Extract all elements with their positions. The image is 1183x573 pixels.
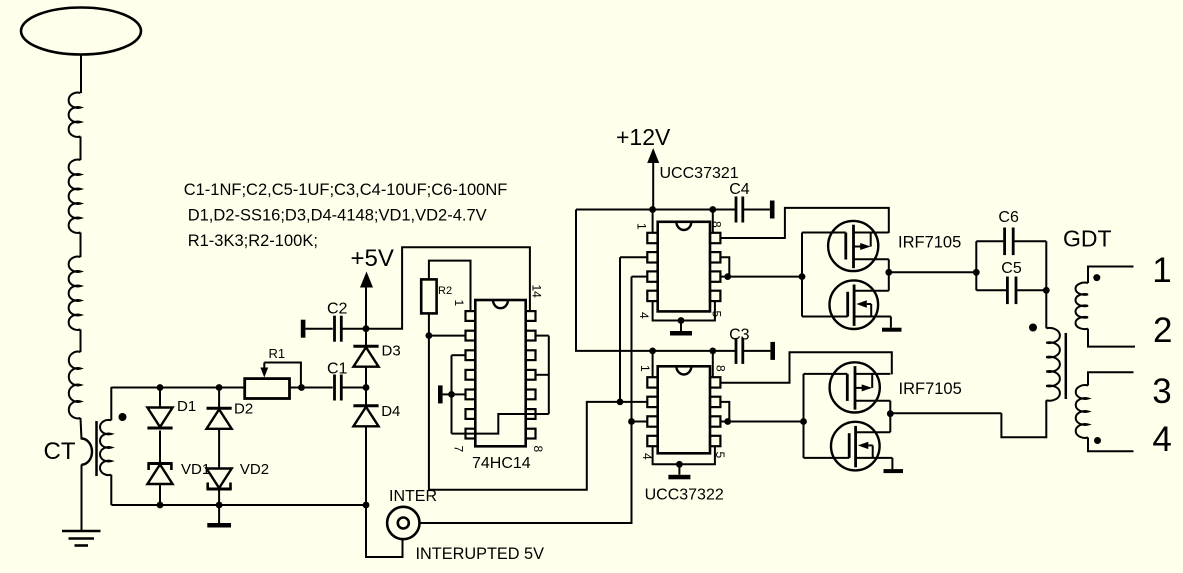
74HC14 pin5 stub bbox=[452, 393, 466, 395]
wire CT primary to ground bbox=[81, 465, 83, 532]
UCC37322 pin4 number bbox=[640, 453, 654, 460]
svg-text:C3: C3 bbox=[729, 327, 750, 344]
+12V top rail bbox=[576, 209, 736, 211]
node dot lower rail / UCC37322 pin1 bbox=[649, 348, 656, 355]
74HC14 label bbox=[472, 455, 531, 472]
svg-text:UCC37322: UCC37322 bbox=[645, 487, 724, 504]
74HC14 pin8 number bbox=[531, 446, 545, 453]
+5V arrow bbox=[360, 272, 373, 288]
svg-text:4: 4 bbox=[637, 312, 651, 319]
CT secondary winding bbox=[100, 420, 111, 475]
svg-text:74HC14: 74HC14 bbox=[472, 455, 531, 472]
svg-text:8: 8 bbox=[531, 446, 545, 453]
C4 label bbox=[729, 181, 750, 198]
node dot bottom rail / interrupter line bbox=[363, 502, 370, 509]
74HC14 pin7-pin9 internal link bbox=[452, 414, 549, 434]
UCC37322 pin1 riser bbox=[652, 351, 654, 378]
D1 label bbox=[177, 398, 196, 415]
74HC14 pin13 stub bbox=[536, 335, 549, 337]
IC UCC37322 (DIP-8) bbox=[647, 366, 720, 453]
diode D1 bbox=[147, 408, 172, 429]
wire R2 top to 74HC14 pin1 bbox=[429, 261, 471, 311]
wire D2-VD2 bbox=[218, 429, 220, 469]
node dot C1 / D3-D4 bbox=[363, 384, 370, 391]
svg-text:C4: C4 bbox=[729, 181, 750, 198]
wire 74HC14 output to UCC pin2 line bbox=[429, 336, 620, 490]
svg-text:C5: C5 bbox=[1001, 260, 1022, 277]
R1 wiper wire bbox=[264, 363, 301, 388]
node dot +12V / pin1 riser bbox=[649, 206, 656, 213]
svg-text:IRF7105: IRF7105 bbox=[899, 380, 962, 398]
node dot R2/pin2/feedback bbox=[426, 332, 433, 339]
capacitor C6 bbox=[1005, 228, 1014, 256]
VD2 label bbox=[240, 461, 269, 478]
D2 label bbox=[234, 401, 253, 418]
diode D4 bbox=[353, 406, 378, 427]
wire to 74HC14 pin2 bbox=[429, 335, 466, 337]
svg-text:CT: CT bbox=[44, 438, 76, 465]
+5V label bbox=[351, 245, 394, 272]
wire VD1 bottom bbox=[159, 484, 161, 505]
wire lower pair output to GDT primary bbox=[890, 400, 1046, 437]
IRF7105 lower label bbox=[899, 380, 962, 398]
INTER jack (connector circle) bbox=[387, 507, 419, 539]
svg-text:D1,D2-SS16;D3,D4-4148;VD1,VD2-: D1,D2-SS16;D3,D4-4148;VD1,VD2-4.7V bbox=[188, 206, 487, 224]
74HC14 pins 3-5-7 tie line bbox=[451, 355, 453, 433]
UCC37322 pin5 number bbox=[713, 452, 727, 459]
diode D2 bbox=[207, 408, 232, 429]
svg-text:R2: R2 bbox=[438, 285, 452, 297]
zener VD2 bbox=[207, 469, 232, 490]
UCC37322 pin4-5 ground bracket bbox=[653, 447, 715, 480]
svg-text:D1: D1 bbox=[177, 398, 196, 415]
74HC14 pin3 stub bbox=[452, 354, 466, 356]
svg-text:+12V: +12V bbox=[616, 124, 671, 150]
notes line 2 bbox=[188, 206, 487, 224]
UCC37322 pin8 wire to FET drain bbox=[720, 352, 891, 383]
wire C1 to +5V line bbox=[341, 387, 366, 389]
svg-text:1: 1 bbox=[452, 300, 466, 307]
wire CT secondary bottom to bottom rail bbox=[110, 475, 112, 505]
CT core bar bbox=[95, 421, 98, 476]
GDT phase dot winding 1-2 bbox=[1093, 274, 1100, 281]
svg-text:4: 4 bbox=[1152, 420, 1171, 459]
D3 label bbox=[382, 343, 401, 360]
zener VD1 bbox=[147, 464, 172, 485]
Tesla resonator coil L1 (secondary winding) bbox=[69, 93, 81, 419]
UCC37321 pin4 number bbox=[637, 312, 651, 319]
node dot C5/C6 input bbox=[973, 269, 980, 276]
UCC37322 pin7-6 bracket bbox=[720, 402, 731, 425]
node dot C2 / +5V bbox=[363, 325, 370, 332]
C1 label bbox=[327, 361, 348, 378]
svg-text:INTERUPTED 5V: INTERUPTED 5V bbox=[416, 545, 545, 563]
node dot INTER line / UCC37322 pin3 bbox=[628, 418, 635, 425]
wire coil to CT bbox=[81, 418, 82, 440]
svg-text:14: 14 bbox=[530, 285, 544, 299]
svg-text:7: 7 bbox=[452, 446, 466, 453]
terminal bar at C2 bbox=[301, 320, 306, 338]
svg-text:R1: R1 bbox=[269, 346, 286, 361]
wire topload to resonator coil bbox=[80, 55, 82, 94]
UCC37321 pin6 wire to gates bbox=[720, 276, 802, 278]
GDT label bbox=[1063, 225, 1112, 251]
IC 74HC14 (DIP-14) bbox=[466, 300, 536, 446]
terminal bar at C4 bbox=[770, 201, 775, 219]
INTER label bbox=[389, 488, 437, 505]
wire INTER to UCC pin3 line bbox=[420, 277, 632, 523]
MOSFET pair Q1 IRF7105 (upper) bbox=[799, 221, 902, 332]
wire top rail (CT to R1) bbox=[111, 387, 245, 389]
svg-text:8: 8 bbox=[714, 365, 728, 372]
MOSFET pair Q2 IRF7105 (lower) bbox=[800, 362, 903, 473]
74HC14 pin7 number bbox=[452, 446, 466, 453]
wire D3 to C1 node bbox=[365, 367, 367, 387]
74HC14 pin14 number bbox=[530, 285, 544, 299]
wire D4 to bottom rail bbox=[365, 427, 367, 505]
wire D2 top bbox=[218, 388, 220, 409]
+12V label bbox=[616, 124, 671, 150]
ground (Tesla base, 3-bar) bbox=[62, 531, 101, 546]
svg-text:C6: C6 bbox=[998, 209, 1019, 226]
VD1 label bbox=[181, 461, 210, 478]
R2 label bbox=[438, 285, 452, 297]
svg-text:VD2: VD2 bbox=[240, 461, 269, 478]
resistor R2 bbox=[421, 279, 436, 313]
wire +5V to 74HC14 pin14 bbox=[366, 247, 530, 328]
node dot top rail / D1 bbox=[157, 384, 164, 391]
UCC37322 pin3 wire bbox=[632, 421, 648, 423]
wire VD2 bottom bbox=[218, 489, 220, 505]
UCC37321 pin3 wire bbox=[632, 276, 648, 278]
svg-text:C1: C1 bbox=[327, 361, 348, 378]
wire bottom rail (CT to +5V line) bbox=[111, 504, 366, 506]
IRF7105 upper label bbox=[898, 234, 961, 252]
svg-text:UCC37321: UCC37321 bbox=[660, 165, 739, 182]
svg-text:D4: D4 bbox=[381, 403, 400, 420]
C2 label bbox=[327, 301, 348, 318]
UCC37322 pin2 wire bbox=[620, 401, 647, 403]
capacitor C1 bbox=[335, 375, 342, 401]
node dot top rail / D2 bbox=[216, 384, 223, 391]
GDT core bar bbox=[1065, 333, 1068, 399]
D4 label bbox=[381, 403, 400, 420]
svg-text:1: 1 bbox=[638, 365, 652, 372]
+5V supply wire bbox=[365, 287, 367, 329]
GDT primary phase dot bbox=[1029, 324, 1037, 332]
GDT phase dot winding 3-4 bbox=[1094, 437, 1101, 444]
GDT terminal 4 label bbox=[1152, 420, 1171, 459]
wire D1 top bbox=[159, 388, 161, 408]
svg-text:1: 1 bbox=[1152, 251, 1171, 290]
wire C5 to right tie bbox=[1017, 289, 1046, 291]
UCC37321 pin2 wire to 74HC14 output bbox=[620, 257, 647, 402]
wire to C6 bbox=[976, 240, 1003, 242]
svg-text:5: 5 bbox=[710, 311, 724, 318]
capacitor C5 bbox=[1007, 277, 1016, 305]
wire R1 to C1 bbox=[290, 387, 333, 389]
74HC14 pin11 stub bbox=[536, 374, 549, 376]
UCC37322 pin8 number bbox=[714, 365, 728, 372]
svg-text:D2: D2 bbox=[234, 401, 253, 418]
wire to C5 bbox=[976, 289, 1006, 291]
74HC14 pins 13-11-9 tie line bbox=[548, 336, 550, 414]
wire C3 to terminal bbox=[743, 350, 771, 352]
svg-text:D3: D3 bbox=[382, 343, 401, 360]
node dot lower rail / UCC37322 pin8 bbox=[709, 348, 716, 355]
capacitor C4 bbox=[736, 197, 743, 223]
R1 label bbox=[269, 346, 286, 361]
wire C1 node to D4 bbox=[365, 388, 367, 407]
notes line 1 bbox=[184, 181, 508, 199]
svg-text:2: 2 bbox=[1153, 311, 1172, 350]
node dot C5 right bbox=[1043, 287, 1050, 294]
wire upper pair output to C5/C6 bbox=[889, 271, 977, 273]
UCC37322 pin6 wire to gates bbox=[720, 421, 803, 423]
node dot R1 right bbox=[298, 384, 305, 391]
CT phase dot bbox=[119, 413, 127, 421]
+12V supply wire bbox=[652, 162, 654, 210]
svg-text:+5V: +5V bbox=[351, 245, 394, 272]
node dot bottom rail / D1 bbox=[157, 502, 164, 509]
wire bottom node to INTER jack bbox=[366, 505, 403, 557]
CT label bbox=[44, 438, 76, 465]
GDT primary winding bbox=[1046, 328, 1060, 401]
node dot 74HC14 pin5 bbox=[448, 391, 455, 398]
GDT secondary winding 3-4 bbox=[1076, 372, 1134, 451]
svg-text:C1-1NF;C2,C5-1UF;C3,C4-10UF;C6: C1-1NF;C2,C5-1UF;C3,C4-10UF;C6-100NF bbox=[184, 181, 508, 199]
+12V bypass to lower rail bbox=[576, 210, 736, 351]
UCC37322 label bbox=[645, 487, 724, 504]
CT current transformer primary (arc on ground lead) bbox=[82, 439, 93, 465]
UCC37321 label bbox=[660, 165, 739, 182]
C5/C6 left tie line bbox=[975, 241, 977, 290]
UCC37321 pin8 wire to upper FET drain bbox=[720, 208, 888, 238]
wire C6 to right tie bbox=[1015, 240, 1047, 242]
node dot UCC pin2 tie bbox=[617, 399, 624, 406]
svg-text:C2: C2 bbox=[327, 301, 348, 318]
UCC37322 pin8 riser bbox=[712, 351, 714, 378]
UCC37321 pin1 riser bbox=[652, 210, 654, 233]
GDT secondary winding 1-2 bbox=[1076, 267, 1135, 347]
node dot rail / pin8 riser bbox=[709, 206, 716, 213]
notes line 3 bbox=[188, 232, 318, 250]
UCC37321 pin8 riser bbox=[712, 210, 714, 233]
GDT terminal 3 label bbox=[1152, 372, 1171, 411]
UCC37321 pin5 number bbox=[710, 311, 724, 318]
74HC14 pin1 number bbox=[452, 300, 466, 307]
+12V arrow bbox=[647, 148, 659, 163]
svg-text:GDT: GDT bbox=[1063, 225, 1112, 251]
wire C4 to terminal bbox=[743, 209, 770, 211]
wire CT secondary top to top rail bbox=[110, 387, 112, 420]
potentiometer R1 body bbox=[245, 379, 290, 399]
Tesla coil topload (ellipse) bbox=[21, 8, 141, 55]
node dot bottom rail / D2 bbox=[216, 502, 223, 509]
wire +5V node to D3 bbox=[365, 329, 367, 347]
GDT terminal 1 label bbox=[1152, 251, 1171, 290]
svg-text:1: 1 bbox=[635, 223, 649, 230]
GDT terminal 2 label bbox=[1153, 311, 1172, 350]
C3 label bbox=[729, 327, 750, 344]
INTERUPTED 5V label bbox=[416, 545, 545, 563]
capacitor C3 bbox=[736, 338, 743, 364]
UCC37321 pin4-5 ground bracket bbox=[653, 301, 715, 335]
R1 wiper arrow bbox=[260, 363, 268, 378]
UCC37321 pin7-6 bracket bbox=[720, 257, 731, 280]
diode D3 bbox=[353, 346, 378, 367]
C6 label bbox=[998, 209, 1019, 226]
capacitor C2 bbox=[335, 316, 342, 342]
IC UCC37321 (DIP-8) bbox=[647, 222, 720, 312]
ground bar below VD2 bbox=[207, 505, 231, 528]
C5 label bbox=[1001, 260, 1022, 277]
terminal bar at 74HC14 pin5 bbox=[438, 385, 452, 403]
wire C2 to +5V node bbox=[341, 328, 366, 330]
terminal bar at C3 bbox=[770, 342, 775, 360]
svg-text:3: 3 bbox=[1152, 372, 1171, 411]
svg-text:IRF7105: IRF7105 bbox=[898, 234, 961, 252]
UCC37321 pin1 number bbox=[635, 223, 649, 230]
C5/C6 right tie line bbox=[1045, 241, 1047, 328]
wire D1-VD1 bbox=[159, 431, 161, 464]
wire R2 bottom bbox=[428, 313, 430, 335]
svg-text:8: 8 bbox=[710, 221, 724, 228]
svg-text:R1-3K3;R2-100K;: R1-3K3;R2-100K; bbox=[188, 232, 318, 250]
UCC37322 pin1 number bbox=[638, 365, 652, 372]
wire term to C2 bbox=[305, 328, 332, 330]
UCC37321 pin8 number bbox=[710, 221, 724, 228]
